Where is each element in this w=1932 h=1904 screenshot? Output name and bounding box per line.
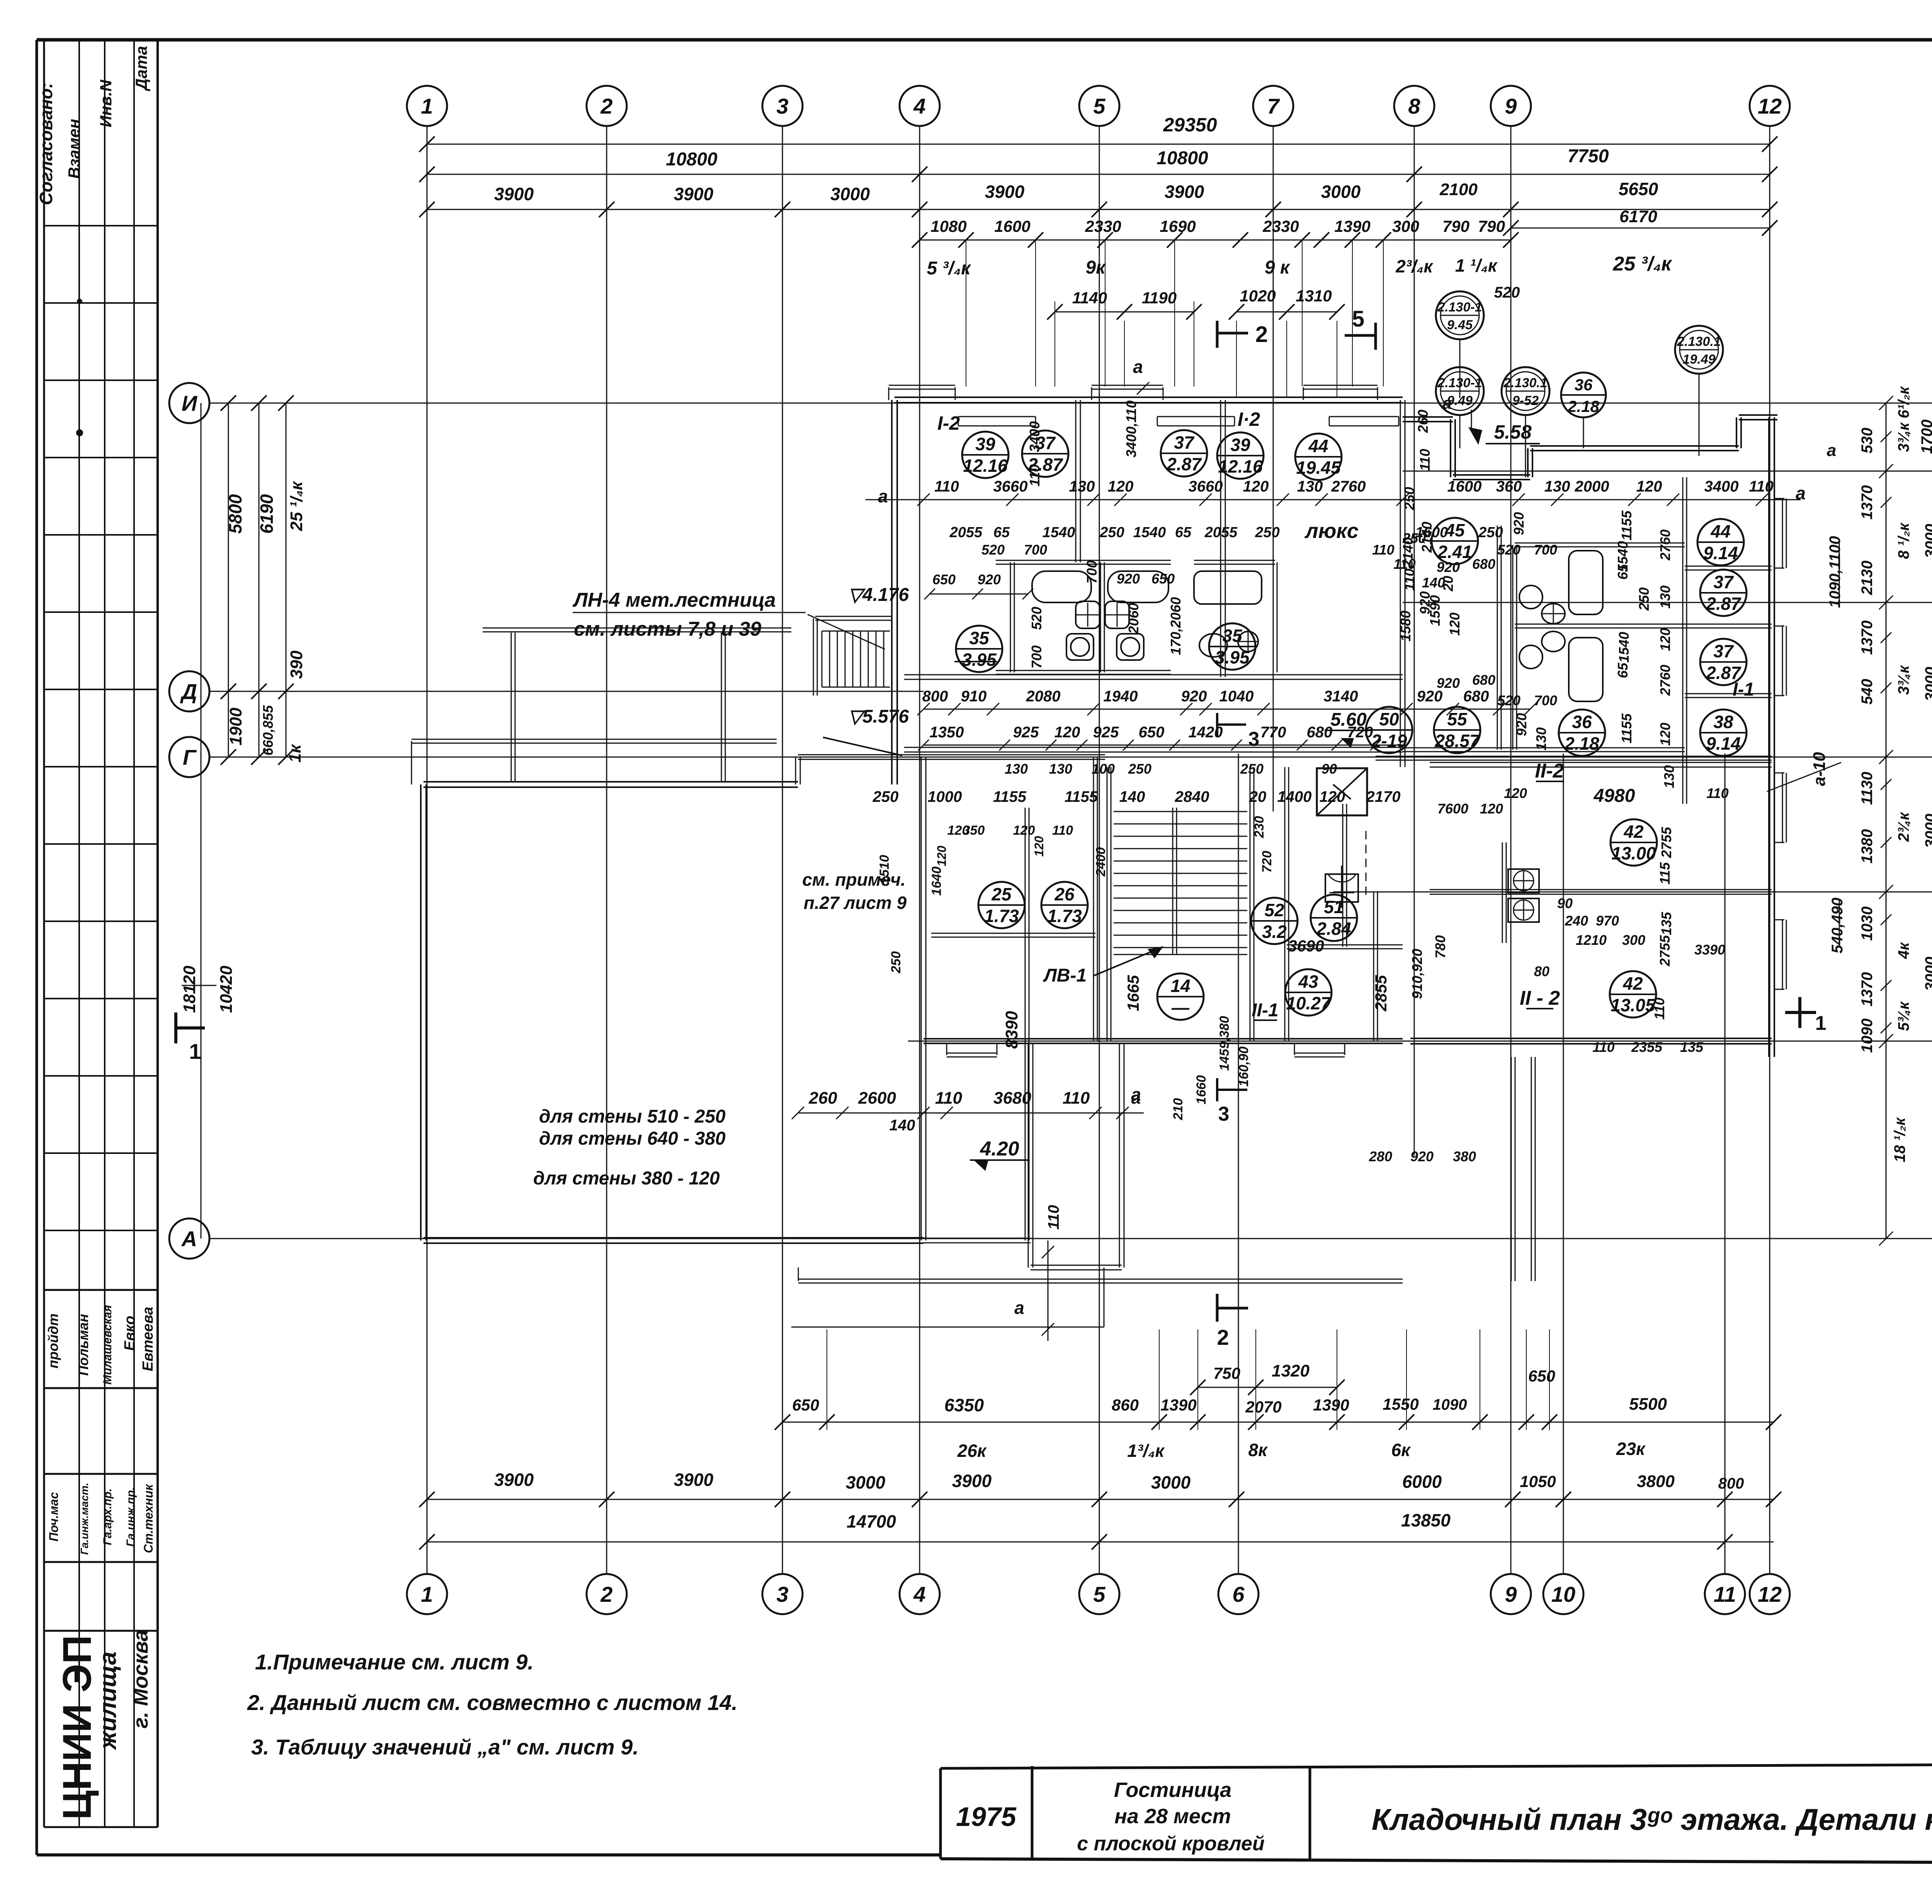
svg-text:3.95: 3.95 bbox=[1215, 647, 1250, 667]
svg-text:920: 920 bbox=[1437, 675, 1460, 691]
svg-text:1³/₄к: 1³/₄к bbox=[1127, 1441, 1165, 1461]
svg-text:65: 65 bbox=[993, 524, 1010, 541]
svg-text:1550: 1550 bbox=[1383, 1395, 1418, 1413]
svg-text:для стены 510 - 250: для стены 510 - 250 bbox=[539, 1106, 726, 1127]
porch upper line y1918 bbox=[412, 739, 777, 784]
svg-text:520: 520 bbox=[1497, 693, 1520, 708]
svg-text:920: 920 bbox=[1181, 688, 1207, 705]
svg-text:II - 2: II - 2 bbox=[1520, 987, 1560, 1009]
svg-text:▽4.176: ▽4.176 bbox=[848, 585, 909, 605]
left title strip row lines bbox=[44, 226, 158, 1827]
corridor wall upper bbox=[904, 675, 1403, 679]
svg-text:2755: 2755 bbox=[1657, 935, 1673, 966]
svg-text:170,2060: 170,2060 bbox=[1168, 597, 1184, 655]
svg-text:36: 36 bbox=[1575, 376, 1593, 394]
svg-text:8: 8 bbox=[1408, 94, 1420, 118]
svg-text:4980: 4980 bbox=[1594, 786, 1635, 806]
svg-text:3000: 3000 bbox=[846, 1472, 886, 1492]
lower mid block walls bbox=[796, 755, 1105, 1240]
svg-text:680: 680 bbox=[1472, 556, 1495, 572]
svg-text:ЦНИИ ЭП: ЦНИИ ЭП bbox=[55, 1635, 100, 1820]
svg-text:1.73: 1.73 bbox=[1047, 906, 1082, 926]
svg-text:210: 210 bbox=[1171, 1098, 1185, 1121]
svg-text:а: а bbox=[1442, 394, 1452, 413]
svg-text:3900: 3900 bbox=[952, 1471, 992, 1491]
main title bbox=[1372, 1802, 1932, 1836]
svg-text:1080: 1080 bbox=[930, 217, 966, 235]
svg-text:1040: 1040 bbox=[1219, 688, 1254, 705]
svg-text:1 ¹/₄к: 1 ¹/₄к bbox=[1455, 255, 1498, 276]
svg-text:3000: 3000 bbox=[1321, 182, 1361, 202]
svg-text:925: 925 bbox=[1013, 724, 1039, 741]
svg-text:250: 250 bbox=[1478, 524, 1503, 541]
room circle 42/13.05 bbox=[1610, 971, 1656, 1018]
title 1975 bbox=[956, 1802, 1017, 1832]
svg-text:12.16: 12.16 bbox=[963, 456, 1008, 476]
svg-text:120: 120 bbox=[1504, 785, 1527, 801]
svg-text:▽5.576: ▽5.576 bbox=[848, 706, 909, 727]
svg-text:920: 920 bbox=[1417, 591, 1433, 614]
svg-text:65: 65 bbox=[1615, 662, 1631, 678]
svg-text:120: 120 bbox=[947, 823, 969, 838]
svg-text:140: 140 bbox=[1119, 788, 1145, 805]
secondary dims 1020 1310 bbox=[1229, 287, 1345, 398]
svg-text:700: 700 bbox=[1029, 645, 1044, 669]
svg-text:20: 20 bbox=[1440, 576, 1456, 592]
secondary dims 1140 1190 bbox=[1047, 289, 1202, 386]
wall-note texts for steny bbox=[533, 1106, 726, 1189]
svg-text:2760: 2760 bbox=[1331, 478, 1366, 495]
svg-text:540: 540 bbox=[1859, 679, 1876, 705]
bath fixtures luxe flat bbox=[1194, 571, 1262, 657]
svg-text:18120: 18120 bbox=[180, 965, 199, 1013]
institute name ЦНИИЭП жилища bbox=[55, 1630, 152, 1820]
svg-text:120: 120 bbox=[1480, 801, 1503, 817]
svg-text:12: 12 bbox=[1758, 1582, 1782, 1606]
room circle 44/9.14 bbox=[1697, 519, 1744, 565]
svg-text:1090,1100: 1090,1100 bbox=[1827, 536, 1844, 608]
svg-text:3000: 3000 bbox=[1922, 814, 1932, 848]
svg-text:с плоской кровлей: с плоской кровлей bbox=[1077, 1833, 1264, 1855]
svg-text:2130: 2130 bbox=[1859, 561, 1876, 596]
svg-text:13850: 13850 bbox=[1401, 1510, 1451, 1530]
svg-text:Гостиница: Гостиница bbox=[1114, 1778, 1231, 1802]
bottom small dims 750 1320 bbox=[1190, 1361, 1345, 1395]
left strip header texts bbox=[36, 46, 150, 436]
svg-text:250: 250 bbox=[872, 788, 899, 805]
hall bottom wall to annex bbox=[923, 1238, 1031, 1243]
room circle 44/19.45 bbox=[1295, 434, 1342, 480]
horizontal axis lines bbox=[209, 403, 1932, 1239]
svg-text:140: 140 bbox=[889, 1117, 915, 1134]
svg-text:9.45: 9.45 bbox=[1447, 318, 1473, 332]
svg-text:п.27 лист 9: п.27 лист 9 bbox=[804, 893, 907, 913]
svg-text:а: а bbox=[1014, 1298, 1024, 1318]
room 35 dim 650 920 bbox=[924, 589, 1033, 599]
balcony tabs on top wall bbox=[889, 385, 1378, 400]
svg-text:520: 520 bbox=[1029, 607, 1044, 630]
svg-text:8 ¹/₂к: 8 ¹/₂к bbox=[1895, 522, 1912, 559]
svg-text:130: 130 bbox=[1657, 585, 1673, 609]
svg-text:1540: 1540 bbox=[1043, 524, 1075, 541]
svg-text:5: 5 bbox=[1352, 306, 1364, 332]
svg-text:Га.инж.пр.: Га.инж.пр. bbox=[124, 1487, 137, 1547]
svg-text:110: 110 bbox=[1045, 1205, 1062, 1230]
room circle 42/13.00 bbox=[1611, 819, 1657, 866]
svg-text:100: 100 bbox=[1092, 761, 1115, 777]
svg-text:925: 925 bbox=[1093, 724, 1119, 741]
room circle 37/2.87 bbox=[1022, 430, 1068, 477]
svg-text:1540: 1540 bbox=[1616, 632, 1632, 663]
svg-text:14700: 14700 bbox=[847, 1511, 896, 1531]
lintel label circles 2.130-1/9.45 bbox=[1436, 284, 1520, 339]
svg-text:3000: 3000 bbox=[1922, 524, 1932, 558]
room circle 51/2.84 bbox=[1311, 895, 1357, 941]
svg-text:120: 120 bbox=[1657, 628, 1673, 651]
right rooms dividers bbox=[1430, 566, 1772, 767]
svg-text:28.57: 28.57 bbox=[1434, 731, 1480, 751]
svg-text:2000: 2000 bbox=[1575, 478, 1609, 495]
svg-text:50: 50 bbox=[1379, 709, 1399, 729]
top dimension row small spans bbox=[912, 217, 1519, 386]
svg-text:3140: 3140 bbox=[1324, 688, 1358, 705]
svg-text:1050: 1050 bbox=[1520, 1472, 1556, 1491]
svg-text:2: 2 bbox=[1255, 322, 1268, 347]
svg-text:260: 260 bbox=[1415, 410, 1431, 433]
room circle 55/28.57 bbox=[1434, 707, 1480, 753]
svg-text:1370: 1370 bbox=[1859, 485, 1876, 520]
exterior wall left of upper block bbox=[892, 400, 897, 784]
svg-text:37: 37 bbox=[1713, 572, 1734, 592]
svg-text:110: 110 bbox=[1401, 568, 1417, 590]
svg-text:2-19: 2-19 bbox=[1371, 731, 1407, 751]
section mark 2 top bbox=[1217, 321, 1268, 348]
svg-text:43: 43 bbox=[1298, 972, 1318, 992]
svg-text:2.87: 2.87 bbox=[1706, 594, 1742, 614]
center annex below B bbox=[1028, 1043, 1124, 1270]
bottom brick counts bbox=[957, 1439, 1646, 1461]
dims above upper rooms rotated bbox=[1027, 400, 1456, 614]
svg-text:1540: 1540 bbox=[1133, 524, 1166, 541]
bottom dim row 3900 ... bbox=[419, 1470, 1781, 1507]
wall x3630 luxe right bbox=[1400, 400, 1405, 767]
room circle 35/3.95 bbox=[956, 626, 1002, 672]
svg-text:5: 5 bbox=[1093, 94, 1105, 118]
svg-text:3900: 3900 bbox=[674, 1470, 714, 1490]
svg-text:1510: 1510 bbox=[877, 855, 892, 884]
lintel circles row 9.49 9-52 36 bbox=[1436, 326, 1723, 477]
svg-text:2.18: 2.18 bbox=[1567, 397, 1599, 415]
svg-text:51: 51 bbox=[1324, 897, 1344, 917]
top dimension row 10800/10800/7750 bbox=[419, 146, 1777, 182]
svg-text:2055: 2055 bbox=[949, 524, 983, 541]
svg-text:а: а bbox=[878, 486, 888, 506]
svg-text:5800: 5800 bbox=[225, 494, 245, 534]
svg-text:800: 800 bbox=[922, 688, 948, 705]
svg-text:3400: 3400 bbox=[1027, 421, 1043, 452]
rotated dims inside right wing bbox=[1029, 510, 1677, 1019]
svg-text:650: 650 bbox=[1139, 724, 1165, 741]
svg-text:2.130.1: 2.130.1 bbox=[1677, 334, 1721, 349]
svg-text:540,490: 540,490 bbox=[1829, 898, 1846, 954]
svg-text:1380: 1380 bbox=[1859, 829, 1876, 864]
svg-text:1400: 1400 bbox=[1277, 788, 1312, 805]
svg-text:25 ¹/₄к: 25 ¹/₄к bbox=[287, 480, 306, 531]
corridor wall lower bbox=[904, 747, 1403, 752]
svg-text:120: 120 bbox=[1636, 478, 1662, 495]
vertical axis lines bbox=[427, 126, 1770, 1574]
svg-text:920: 920 bbox=[1514, 713, 1529, 736]
svg-text:110: 110 bbox=[1372, 542, 1394, 558]
svg-text:2600: 2600 bbox=[858, 1089, 896, 1108]
svg-text:3¾к: 3¾к bbox=[1895, 665, 1912, 695]
terrace line below plan bbox=[798, 1268, 1403, 1283]
svg-text:380: 380 bbox=[1453, 1149, 1476, 1164]
svg-text:90: 90 bbox=[1321, 761, 1337, 777]
svg-text:1320: 1320 bbox=[1272, 1361, 1310, 1380]
svg-text:65: 65 bbox=[1175, 524, 1192, 541]
stair label LV-1 bbox=[1043, 947, 1163, 986]
svg-text:250: 250 bbox=[889, 951, 903, 974]
svg-text:1459,380: 1459,380 bbox=[1217, 1016, 1232, 1071]
right wall window tabs bbox=[1774, 499, 1786, 989]
svg-text:110: 110 bbox=[1749, 478, 1774, 495]
right wing outline bbox=[1403, 415, 1777, 480]
room circle 38/9.14 bbox=[1700, 710, 1747, 756]
left dim verticals 5800/6190/25k bbox=[221, 395, 306, 765]
title block frame bbox=[940, 1762, 1932, 1861]
section mark 5 top bbox=[1345, 306, 1376, 350]
svg-text:ЛН-4 мет.лестница: ЛН-4 мет.лестница bbox=[572, 589, 776, 611]
room circle 36/2.18 bbox=[1559, 710, 1605, 756]
svg-text:680: 680 bbox=[1472, 672, 1495, 688]
svg-text:3690: 3690 bbox=[1288, 937, 1324, 955]
svg-text:700: 700 bbox=[1084, 560, 1100, 584]
svg-text:I·2: I·2 bbox=[1238, 408, 1260, 430]
svg-text:2060: 2060 bbox=[1126, 603, 1141, 634]
svg-text:680: 680 bbox=[1463, 688, 1489, 705]
small dims right wing horizontal bbox=[932, 530, 1729, 1164]
svg-text:38: 38 bbox=[1713, 712, 1733, 732]
svg-text:2.130.1: 2.130.1 bbox=[1503, 376, 1547, 390]
gallery line upper left bbox=[483, 628, 791, 782]
svg-text:860: 860 bbox=[1112, 1396, 1139, 1414]
svg-text:Евтеева: Евтеева bbox=[140, 1307, 156, 1371]
svg-text:750: 750 bbox=[1213, 1364, 1240, 1382]
svg-text:1140: 1140 bbox=[1072, 289, 1107, 307]
svg-text:ЛВ-1: ЛВ-1 bbox=[1043, 965, 1087, 986]
svg-text:2.87: 2.87 bbox=[1166, 454, 1202, 474]
svg-text:37: 37 bbox=[1713, 641, 1734, 661]
svg-text:1090: 1090 bbox=[1433, 1396, 1467, 1413]
svg-text:20: 20 bbox=[1249, 788, 1267, 805]
svg-text:4: 4 bbox=[913, 1582, 925, 1606]
svg-text:2140: 2140 bbox=[1419, 522, 1435, 553]
svg-text:1.73: 1.73 bbox=[984, 906, 1019, 926]
svg-text:130: 130 bbox=[1297, 478, 1323, 495]
bath fixtures right wing upper bbox=[1519, 551, 1603, 624]
LN-4 annotation bbox=[572, 589, 885, 649]
svg-text:Милашевская: Милашевская bbox=[101, 1305, 114, 1385]
top dimension row 29350 bbox=[419, 114, 1777, 152]
svg-text:9.14: 9.14 bbox=[1703, 543, 1738, 563]
apartment labels bbox=[802, 408, 1754, 1049]
title hotel bbox=[1077, 1778, 1264, 1855]
svg-text:Согласовано:: Согласовано: bbox=[36, 82, 56, 205]
mid block bottom wall (axis B) bbox=[923, 1039, 1403, 1043]
svg-text:3680: 3680 bbox=[993, 1089, 1031, 1108]
svg-text:42: 42 bbox=[1622, 973, 1643, 994]
svg-text:10800: 10800 bbox=[666, 149, 718, 170]
svg-text:5500: 5500 bbox=[1629, 1395, 1667, 1414]
svg-text:4: 4 bbox=[913, 94, 925, 118]
svg-text:920: 920 bbox=[1410, 1149, 1434, 1164]
svg-text:Поч.мас: Поч.мас bbox=[47, 1492, 61, 1542]
svg-text:39: 39 bbox=[975, 434, 995, 454]
dim row y2140 small bbox=[935, 823, 1073, 866]
svg-text:3390: 3390 bbox=[1694, 942, 1725, 958]
svg-text:120: 120 bbox=[1657, 723, 1673, 746]
svg-text:2. Данный лист см. совместно: 2. Данный лист см. совместно с листом 14… bbox=[247, 1690, 738, 1715]
top dimension row 6170 bbox=[1503, 207, 1777, 236]
level mark 5.60 bbox=[1325, 710, 1371, 748]
svg-text:280: 280 bbox=[1369, 1149, 1392, 1164]
svg-text:1600: 1600 bbox=[994, 217, 1030, 235]
room circle 37/2.87 bbox=[1700, 639, 1747, 685]
svg-text:10420: 10420 bbox=[217, 965, 236, 1013]
svg-text:720: 720 bbox=[1347, 724, 1373, 741]
svg-text:3: 3 bbox=[776, 1582, 788, 1606]
right outside dim columns bbox=[1827, 386, 1932, 1246]
svg-text:9: 9 bbox=[1505, 94, 1517, 118]
svg-text:2080: 2080 bbox=[1026, 688, 1061, 705]
svg-text:910: 910 bbox=[961, 688, 987, 705]
svg-text:5 ³/₄к: 5 ³/₄к bbox=[927, 258, 972, 279]
svg-text:35: 35 bbox=[969, 628, 990, 648]
dim row 2055 65 ... y1385 bbox=[949, 524, 1503, 541]
ventilation shaft crossed box bbox=[1317, 768, 1367, 815]
svg-text:3.2: 3.2 bbox=[1262, 922, 1287, 942]
svg-text:И: И bbox=[182, 391, 198, 415]
svg-text:3000: 3000 bbox=[1151, 1472, 1191, 1492]
svg-text:3900: 3900 bbox=[985, 182, 1025, 202]
basins in II-2 flat bbox=[1502, 842, 1539, 943]
svg-text:2170: 2170 bbox=[1366, 788, 1401, 805]
svg-text:3000: 3000 bbox=[1922, 957, 1932, 991]
a-10 opening note bbox=[1767, 752, 1841, 791]
svg-text:90: 90 bbox=[1557, 895, 1573, 911]
svg-text:1: 1 bbox=[1815, 1012, 1827, 1035]
svg-text:2¾к: 2¾к bbox=[1895, 812, 1912, 842]
room circle 37/2.87 bbox=[1700, 570, 1747, 616]
bath fixtures right wing lower bbox=[1519, 631, 1603, 701]
svg-text:3.95: 3.95 bbox=[962, 650, 997, 670]
svg-text:39: 39 bbox=[1230, 435, 1250, 455]
svg-text:110: 110 bbox=[1706, 785, 1728, 801]
bottom dim row 650 6350 860 ... bbox=[775, 1367, 1781, 1430]
svg-text:Дата: Дата bbox=[132, 46, 150, 91]
level mark 4.20 bbox=[970, 1138, 1030, 1171]
svg-text:1.Примечание см. лист 9.: 1.Примечание см. лист 9. bbox=[255, 1650, 534, 1674]
svg-text:130: 130 bbox=[1005, 761, 1028, 777]
svg-text:42: 42 bbox=[1623, 822, 1644, 842]
svg-text:520: 520 bbox=[981, 542, 1005, 558]
II-2 room walls bbox=[1374, 890, 1772, 1041]
svg-text:Евко: Евко bbox=[122, 1316, 138, 1351]
svg-text:3: 3 bbox=[776, 94, 788, 118]
svg-text:2760: 2760 bbox=[1657, 665, 1673, 696]
svg-text:110: 110 bbox=[1592, 1039, 1614, 1055]
svg-text:Г: Г bbox=[183, 745, 197, 769]
svg-text:1940: 1940 bbox=[1104, 688, 1138, 705]
svg-text:23к: 23к bbox=[1616, 1439, 1646, 1459]
svg-text:3¾к 6¹/₂к: 3¾к 6¹/₂к bbox=[1895, 386, 1912, 452]
svg-text:120: 120 bbox=[935, 846, 949, 866]
room circle 45/2.41 bbox=[1432, 518, 1478, 564]
svg-text:2400: 2400 bbox=[1094, 847, 1108, 877]
svg-text:65: 65 bbox=[1615, 564, 1631, 580]
svg-text:5: 5 bbox=[1093, 1582, 1105, 1606]
svg-text:250: 250 bbox=[1255, 524, 1279, 541]
svg-text:3660: 3660 bbox=[993, 478, 1028, 495]
wing bathroom block bbox=[1376, 526, 1772, 760]
svg-text:1580: 1580 bbox=[1398, 611, 1413, 641]
svg-text:Инв.N: Инв.N bbox=[97, 79, 115, 128]
far-left dims 18120 10420 bbox=[180, 403, 236, 1239]
svg-text:1155: 1155 bbox=[993, 788, 1027, 805]
svg-text:800: 800 bbox=[1718, 1475, 1744, 1492]
svg-text:26: 26 bbox=[1054, 884, 1075, 904]
svg-text:260: 260 bbox=[808, 1089, 837, 1108]
svg-text:680: 680 bbox=[1307, 724, 1333, 741]
svg-text:135: 135 bbox=[1658, 912, 1674, 935]
svg-text:29350: 29350 bbox=[1163, 114, 1217, 136]
svg-text:250: 250 bbox=[1636, 587, 1652, 611]
exterior stair LN-4 bbox=[813, 616, 893, 696]
svg-text:I-2: I-2 bbox=[937, 412, 960, 434]
svg-text:9 к: 9 к bbox=[1265, 257, 1291, 278]
svg-text:530: 530 bbox=[1859, 428, 1876, 454]
svg-text:Польман: Польман bbox=[75, 1314, 91, 1376]
section letter a near axis 6 top bbox=[1133, 357, 1149, 395]
svg-text:2355: 2355 bbox=[1631, 1039, 1663, 1055]
svg-text:700: 700 bbox=[1024, 542, 1047, 558]
svg-text:110: 110 bbox=[934, 478, 959, 495]
svg-text:25: 25 bbox=[991, 884, 1012, 904]
svg-text:120: 120 bbox=[1108, 478, 1134, 495]
svg-text:26к: 26к bbox=[957, 1441, 987, 1461]
svg-text:240: 240 bbox=[1565, 913, 1588, 929]
svg-text:1975: 1975 bbox=[956, 1802, 1017, 1832]
room circle 39/12.16 bbox=[1217, 432, 1264, 479]
svg-text:360: 360 bbox=[1496, 478, 1522, 495]
svg-text:120: 120 bbox=[1447, 613, 1463, 636]
svg-text:300: 300 bbox=[1392, 217, 1419, 235]
porch verticals below II-2 bbox=[1511, 1057, 1535, 1281]
svg-text:25 ³/₄к: 25 ³/₄к bbox=[1612, 253, 1672, 275]
svg-text:6к: 6к bbox=[1391, 1440, 1412, 1460]
room circle 52/3.2 bbox=[1251, 898, 1298, 944]
room circle 50/2-19 bbox=[1366, 707, 1412, 753]
svg-text:1130: 1130 bbox=[1859, 772, 1876, 805]
svg-text:11: 11 bbox=[1714, 1582, 1736, 1606]
room circle 37/2.87 bbox=[1161, 430, 1207, 476]
top axis circles bbox=[407, 86, 1790, 126]
svg-text:35: 35 bbox=[1222, 626, 1243, 646]
wing interior wall x4360 bbox=[1683, 477, 1687, 804]
svg-text:36: 36 bbox=[1572, 712, 1592, 732]
svg-text:II-1: II-1 bbox=[1252, 1000, 1278, 1021]
